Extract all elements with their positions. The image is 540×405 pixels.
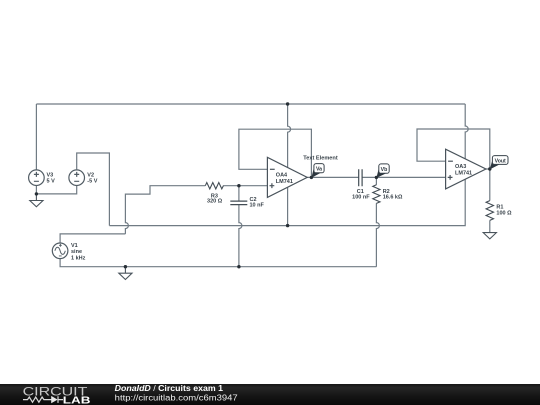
svg-text:5 V: 5 V xyxy=(47,179,56,185)
op-amp OA4 xyxy=(267,157,307,197)
junction dot C2 bottom rail xyxy=(237,265,240,268)
capacitor C1 xyxy=(359,169,362,186)
resistor R2 xyxy=(373,185,380,204)
junction dot OA4 output feedback tap xyxy=(310,176,313,179)
wire V1 riser with hop over -5V rail xyxy=(125,186,205,234)
label C2 value xyxy=(250,197,265,209)
capacitor C2 xyxy=(230,201,247,205)
wire R2 bottom lead with hop over -5V rail xyxy=(376,203,379,266)
wire V3 bottom to ground node xyxy=(35,186,37,194)
wire C2 bottom lead with hop over -5V rail xyxy=(239,205,242,267)
svg-text:-5 V: -5 V xyxy=(87,179,97,185)
label OA4 LM741 xyxy=(276,173,293,185)
junction dot OA4 bottom supply on -5V rail xyxy=(286,224,289,227)
wire V3 node to V2 bottom xyxy=(36,185,76,194)
wire C1 to Vb node to OA3 plus input xyxy=(362,176,446,178)
wire R1 bottom to ground xyxy=(489,220,491,232)
svg-text:LAB: LAB xyxy=(63,395,91,405)
wire R3 to C2 node to OA4 plus input xyxy=(224,185,268,187)
svg-text:100 nF: 100 nF xyxy=(352,195,370,201)
label V1 value xyxy=(71,243,86,262)
label R3 value xyxy=(207,193,223,204)
node flag Vb xyxy=(376,164,389,178)
voltage source V3 xyxy=(29,170,45,186)
wire V1 bottom to bottom rail xyxy=(60,258,376,266)
wire V2 top to -5V rail riser xyxy=(77,153,110,226)
wire OA4 feedback loop xyxy=(239,129,312,177)
svg-text:100 Ω: 100 Ω xyxy=(496,211,512,217)
resistor R3 xyxy=(205,183,223,189)
junction dot Vb node xyxy=(375,176,378,179)
junction dot OA4 top supply on rail xyxy=(286,102,289,105)
svg-text:16.6 kΩ: 16.6 kΩ xyxy=(383,195,403,201)
wire V1 top to riser xyxy=(60,234,125,243)
svg-text:V3: V3 xyxy=(47,172,54,178)
label R1 value xyxy=(496,204,512,216)
logo diode triangle xyxy=(51,396,57,403)
voltage source V1 sine xyxy=(52,243,68,259)
wire OA4 output to C1 xyxy=(307,176,359,178)
junction dot bottom rail ground xyxy=(124,265,127,268)
svg-text:320 Ω: 320 Ω xyxy=(207,199,223,205)
junction dot OA3 output xyxy=(488,167,491,170)
svg-text:LM741: LM741 xyxy=(455,171,472,177)
wire C2 top lead xyxy=(238,186,240,201)
label R2 value xyxy=(383,189,403,201)
wire OA3 feedback loop xyxy=(417,129,490,169)
svg-text:1 kHz: 1 kHz xyxy=(71,256,86,262)
svg-text:LM741: LM741 xyxy=(276,179,293,185)
svg-text:Va: Va xyxy=(316,167,322,173)
resistor R1 xyxy=(486,201,493,221)
label V2 value xyxy=(87,172,97,184)
junction dot V3 ground node xyxy=(35,192,38,195)
wire OA4 top supply with hop over feedback xyxy=(288,104,291,168)
svg-text:DonaldD / Circuits exam 1: DonaldD / Circuits exam 1 xyxy=(115,384,224,393)
svg-text:V1: V1 xyxy=(71,243,78,249)
wire -5V rail xyxy=(109,179,465,225)
wire V3 riser to top rail xyxy=(35,104,37,170)
ground below V3 xyxy=(30,194,43,207)
op-amp OA3 xyxy=(446,149,486,189)
svg-text:R1: R1 xyxy=(496,204,503,210)
node flag Vout xyxy=(490,156,508,170)
wire OA3 output to R1 xyxy=(486,169,490,201)
svg-text:OA3: OA3 xyxy=(455,164,466,170)
svg-text:Vout: Vout xyxy=(495,158,506,164)
label C1 value xyxy=(352,189,370,201)
junction dot R3-C2-OA4 node xyxy=(237,184,240,187)
wire OA3 top supply with hop over feedback xyxy=(465,104,468,159)
label V3 value xyxy=(47,172,56,184)
svg-text:10 nF: 10 nF xyxy=(250,203,265,209)
svg-text:V2: V2 xyxy=(87,172,94,178)
logo resistor-diode symbol xyxy=(23,396,63,403)
wire OA4 bottom supply xyxy=(287,188,289,226)
svg-text:Vb: Vb xyxy=(381,167,388,173)
svg-text:Text Element: Text Element xyxy=(303,156,338,162)
svg-text:sine: sine xyxy=(71,249,82,255)
ground on bottom rail xyxy=(119,267,132,280)
label OA3 LM741 xyxy=(455,164,472,176)
node flag Va xyxy=(311,164,324,178)
svg-text:http://circuitlab.com/c6m3947: http://circuitlab.com/c6m3947 xyxy=(115,394,239,403)
wire R2 top lead xyxy=(375,177,377,184)
wire +5V top rail xyxy=(36,103,465,105)
footer bar background xyxy=(0,384,540,405)
voltage source V2 xyxy=(69,170,85,186)
ground below R1 xyxy=(483,233,496,239)
svg-text:OA4: OA4 xyxy=(276,173,288,179)
